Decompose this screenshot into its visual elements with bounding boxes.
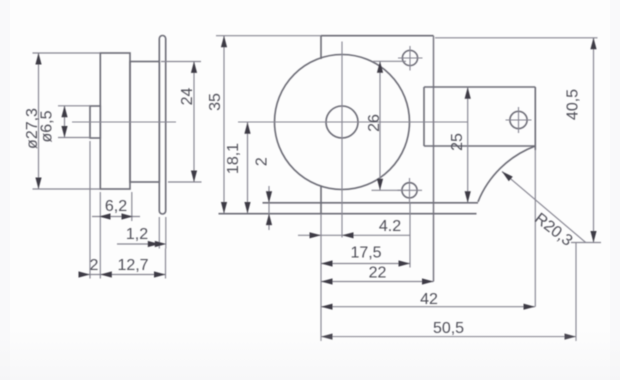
svg-text:22: 22 xyxy=(369,265,387,282)
svg-text:ø6,5: ø6,5 xyxy=(39,110,56,142)
extension line: part right extent down xyxy=(575,243,577,341)
svg-text:25: 25 xyxy=(449,133,466,151)
svg-text:2: 2 xyxy=(90,257,99,274)
dimension 42 (to tab right edge) xyxy=(321,291,535,310)
front view: plate left edge lower segment xyxy=(320,186,322,214)
front view: tab notch left edge xyxy=(423,87,425,146)
dimension 40,5 (overall height) xyxy=(435,38,601,243)
svg-text:12,7: 12,7 xyxy=(117,257,148,274)
front view: side tab right edge xyxy=(534,87,536,150)
side view: gear housing section (24 tall) xyxy=(130,62,159,183)
dimension 25 (tab height) xyxy=(449,87,471,203)
side view: shaft stub xyxy=(90,106,100,138)
dimension 50,5 (overall width) xyxy=(321,320,576,340)
dimension 2 (shaft protrusion) xyxy=(79,141,101,279)
dimension 1,2 (plate thickness) xyxy=(117,217,166,249)
front view: side tab bottom fold line xyxy=(424,145,535,147)
dimension 22 (plate width) xyxy=(321,265,434,285)
svg-text:1,2: 1,2 xyxy=(126,226,148,243)
front view: horizontal centerline xyxy=(238,121,468,123)
dimension 35 (plate height) xyxy=(207,36,321,214)
extension line below tab right edge xyxy=(534,150,536,307)
paper tint bottom xyxy=(0,330,620,380)
radius callout R20,3 with leader xyxy=(500,169,586,250)
dimension 4.2 (plate edge to axis) xyxy=(298,218,410,238)
svg-text:35: 35 xyxy=(207,93,224,111)
dimension 24 (gear housing height) xyxy=(161,61,202,182)
mounting hole bottom xyxy=(398,178,423,203)
front view: side tab top edge xyxy=(424,86,535,88)
svg-text:26: 26 xyxy=(366,114,383,132)
front view: R20,3 concave corner arc xyxy=(478,146,535,202)
front view: plate left edge upper segment xyxy=(320,36,322,59)
paper tint right edge xyxy=(610,0,620,380)
side view: mounting plate edge-on (1,2 thick) xyxy=(159,36,165,215)
dimension 6,2 (body length) xyxy=(92,192,140,221)
front view: mounting plate top edge xyxy=(321,35,434,37)
front view: vertical centerline xyxy=(341,42,343,238)
front view: bend line / right edge of plate xyxy=(433,36,435,282)
dimension 2 (foot offset) xyxy=(254,157,273,230)
side view: motor body (6,2 long, diameter 27,3) xyxy=(100,53,130,189)
svg-text:6,2: 6,2 xyxy=(105,198,127,215)
side view: horizontal centerline xyxy=(72,121,176,123)
svg-text:40,5: 40,5 xyxy=(565,89,582,120)
paper tint left edge xyxy=(0,0,10,380)
front view: motor body circle ø27,3 xyxy=(275,55,410,190)
dimension ø27,3 (side view body diameter) xyxy=(24,53,100,189)
extension line: bottom hole axis down xyxy=(409,203,411,268)
svg-text:24: 24 xyxy=(179,88,196,106)
dimension 17,5 (edge to hole axis) xyxy=(321,245,410,267)
mounting hole top right xyxy=(398,46,423,71)
svg-text:18,1: 18,1 xyxy=(225,143,242,174)
front view: bent foot bottom edge xyxy=(219,213,477,215)
dimension 26 (hole spacing vertical) xyxy=(366,61,406,190)
dimension ø6,5 (shaft diameter) xyxy=(39,106,91,143)
front view: shaft hole circle ø6,5 xyxy=(326,106,358,138)
dimension 18,1 (axis height) xyxy=(225,122,251,213)
svg-text:4.2: 4.2 xyxy=(379,218,401,235)
svg-text:2: 2 xyxy=(254,157,271,166)
svg-text:42: 42 xyxy=(420,291,438,308)
svg-text:17,5: 17,5 xyxy=(350,245,381,262)
dimension 12,7 (overall depth) xyxy=(100,221,165,279)
front view: plate bottom edge xyxy=(263,202,479,204)
extension line: plate left edge down xyxy=(320,214,322,341)
tab mounting hole xyxy=(506,107,532,133)
